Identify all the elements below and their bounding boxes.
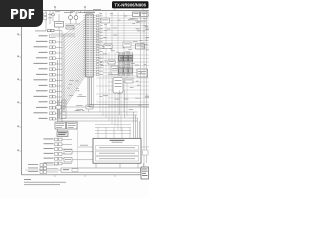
- svg-text:TX-NR906/N906: TX-NR906/N906: [114, 3, 146, 8]
